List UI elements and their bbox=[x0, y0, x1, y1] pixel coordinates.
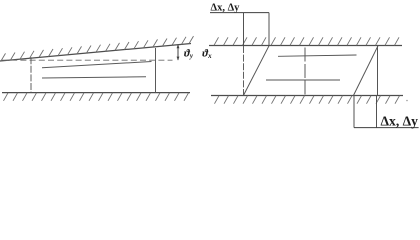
svg-text:ϑy: ϑy bbox=[184, 47, 194, 60]
bottom leader horizontal (incl. underline) bbox=[354, 127, 419, 129]
top leader vertical at displaced corner bbox=[268, 13, 270, 46]
pad element top line (tilted) bbox=[42, 62, 152, 68]
solid right edge of element bbox=[377, 46, 379, 96]
hatching top-right wall bbox=[214, 37, 399, 45]
interior centreline vertical bbox=[304, 48, 306, 97]
top wall right figure bbox=[209, 45, 402, 47]
right edge of pad element bbox=[155, 48, 157, 92]
dashed left edge of pad element bbox=[30, 57, 32, 92]
top leader horizontal (incl. underline) bbox=[210, 12, 269, 14]
top wall (tilted) left figure bbox=[0, 44, 191, 62]
bottom leader vertical right (original corner) bbox=[376, 96, 378, 128]
pad element bottom line bbox=[42, 77, 146, 78]
bottom wall left figure bbox=[2, 92, 190, 94]
svg-text:ϑx: ϑx bbox=[202, 47, 212, 60]
interior centreline horizontal upper bbox=[278, 55, 357, 56]
bottom wall right figure bbox=[211, 95, 403, 97]
sheared left edge bbox=[244, 46, 270, 96]
hatching bottom-left wall bbox=[4, 93, 189, 101]
top leader vertical at original edge bbox=[243, 13, 245, 46]
bottom leader vertical left (sheared corner) bbox=[353, 96, 355, 128]
svg-text:Δx, Δy: Δx, Δy bbox=[211, 3, 241, 14]
hatching bottom-right wall bbox=[215, 96, 400, 104]
dashed reference line (original wall position) bbox=[2, 59, 173, 61]
dashed original left edge of element bbox=[243, 46, 245, 95]
scan dot artifact bbox=[406, 100, 408, 102]
sheared right edge bbox=[354, 46, 379, 96]
hatching top-left wall bbox=[1, 36, 194, 61]
interior centreline horizontal lower bbox=[266, 79, 340, 81]
dimension bar theta-y with arrows bbox=[177, 45, 179, 60]
svg-text:Δx, Δy: Δx, Δy bbox=[381, 113, 419, 128]
